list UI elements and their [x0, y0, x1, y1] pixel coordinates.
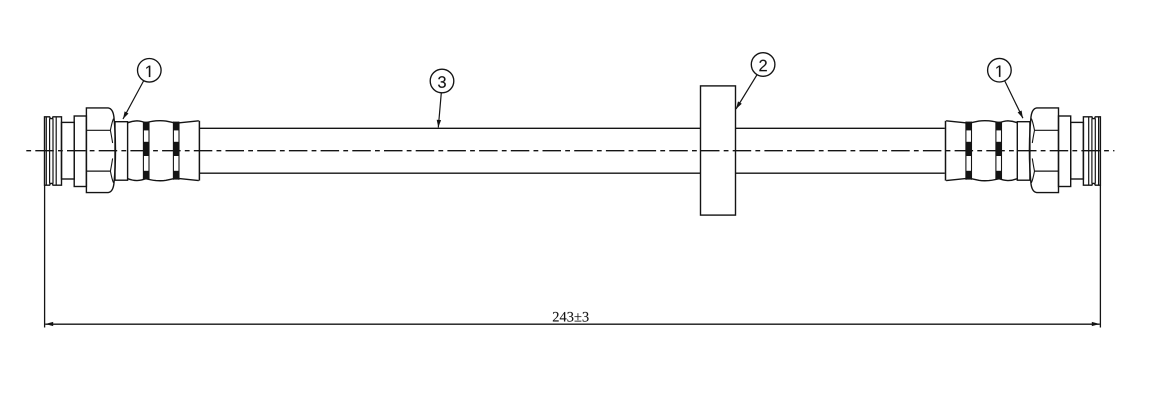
- collar (right): [1059, 116, 1071, 187]
- crimp band B: [173, 122, 179, 180]
- right fitting (mirrored copy of left): [946, 108, 1101, 193]
- ferrule crimped body: [128, 121, 200, 181]
- crimp band A: [143, 122, 149, 180]
- leader balloon 1 left: [123, 81, 144, 119]
- spacer ring: [62, 122, 75, 179]
- crimp band D: [966, 122, 972, 180]
- collar: [74, 116, 86, 187]
- crimp band C: [996, 122, 1002, 180]
- balloon 3: [430, 69, 454, 93]
- leader balloon 2: [736, 75, 757, 109]
- extension line left: [44, 185, 46, 327]
- end pipe piece (right): [1083, 117, 1100, 185]
- ferrule cap: [115, 122, 128, 181]
- balloon 1 left: [138, 59, 162, 83]
- dimension line 243±3: [45, 312, 1100, 326]
- hex nut: [86, 108, 115, 193]
- end pipe piece: [45, 117, 62, 185]
- leader balloon 1 right: [1005, 81, 1023, 118]
- spacer ring (right): [1071, 122, 1084, 179]
- centerline: [26, 150, 1114, 152]
- leader balloon 3: [437, 93, 442, 128]
- hose tube 3 (left segment): [199, 128, 700, 173]
- left fitting group: [45, 108, 200, 193]
- balloon 1 right: [988, 58, 1012, 82]
- mounting bracket 2: [701, 86, 736, 215]
- extension line right: [1099, 185, 1101, 327]
- ferrule cap (right): [1017, 122, 1030, 181]
- ferrule crimped body (right): [946, 121, 1018, 181]
- centerline through bracket: [701, 150, 735, 152]
- balloon 2: [751, 53, 775, 77]
- hex nut (right): [1029, 108, 1058, 193]
- hose tube 3 (right segment): [736, 128, 945, 173]
